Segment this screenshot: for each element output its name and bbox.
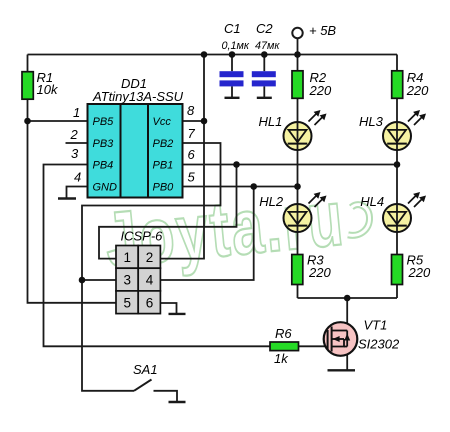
svg-text:SI2302: SI2302: [358, 337, 400, 352]
wire PB0 branch to ICSP pin4: [160, 187, 253, 281]
ground pin4 GND: [58, 197, 76, 199]
wire SA1 right lead to ground: [154, 391, 178, 402]
LED HL3: [359, 110, 426, 150]
gate bar: [327, 330, 329, 350]
svg-text:2: 2: [146, 250, 154, 265]
ground VT1 source: [328, 369, 356, 371]
connector ICSP-6: [116, 229, 163, 314]
resistor R6: [270, 342, 299, 351]
svg-text:+ 5В: + 5В: [309, 23, 336, 38]
node rail/C1 junction: [229, 51, 236, 58]
node SA1/ICSP pin3 junction: [79, 277, 86, 284]
source stub: [344, 346, 347, 348]
node rail/+5V junction: [294, 51, 301, 58]
svg-text:1: 1: [73, 105, 80, 120]
svg-text:PB0: PB0: [153, 182, 175, 194]
wire pin4 GND lead: [67, 187, 88, 199]
resistor R4: [392, 71, 403, 99]
svg-text:4: 4: [146, 273, 154, 288]
wire R1 branch (rail to pin1 to ICSP pin5): [28, 55, 117, 303]
svg-text:1k: 1k: [274, 351, 289, 366]
node HL1/HL2 junction: [294, 183, 301, 190]
svg-text:SA1: SA1: [133, 362, 158, 377]
svg-text:5: 5: [124, 295, 132, 310]
wire VT1 drain lead: [346, 298, 348, 331]
svg-text:220: 220: [406, 83, 429, 98]
ground ICSP pin6: [169, 313, 186, 315]
svg-text:HL1: HL1: [259, 114, 283, 129]
LED HL2: [259, 192, 326, 232]
wire pin6 PB1 to HL3/HL4 node: [183, 164, 398, 166]
capacitor C1: [220, 71, 244, 77]
wire C1 leads: [231, 55, 233, 72]
node PB0 branch junction: [250, 183, 257, 190]
svg-text:PB4: PB4: [93, 160, 114, 172]
svg-text:HL3: HL3: [359, 114, 384, 129]
svg-text:Vcc: Vcc: [153, 116, 172, 128]
wire R3/R5 bottom rail to drain node: [298, 297, 398, 299]
drain stub: [332, 330, 348, 332]
substrate arrow: [344, 334, 350, 341]
LED HL1: [259, 110, 327, 150]
channel bar: [331, 327, 333, 352]
svg-text:0,1мк: 0,1мк: [222, 40, 250, 52]
svg-text:C1: C1: [224, 21, 241, 36]
svg-text:4: 4: [74, 170, 81, 185]
svg-text:C2: C2: [256, 21, 273, 36]
wire PB1 branch to ICSP pin1: [99, 165, 237, 259]
svg-text:PB3: PB3: [93, 138, 115, 150]
switch SA1: [133, 362, 158, 391]
IC DD1 ATtiny13A-SSU: [88, 76, 184, 198]
resistor R3: [292, 255, 303, 285]
svg-text:3: 3: [124, 273, 132, 288]
svg-text:2: 2: [70, 127, 79, 142]
svg-text:8: 8: [187, 103, 195, 118]
svg-text:R6: R6: [275, 326, 292, 341]
terminal +5V: [292, 28, 302, 38]
ground C1: [225, 97, 240, 99]
body to source tie: [332, 339, 344, 347]
wire Vcc vertical to ICSP pin2: [160, 55, 204, 259]
svg-text:PB5: PB5: [93, 116, 115, 128]
resistor R1: [22, 72, 33, 100]
watermark Joyta.ru: [101, 171, 373, 284]
resistor R2: [292, 71, 303, 99]
svg-text:1: 1: [124, 250, 132, 265]
wire pin3 PB4 to R6 to gate VT1: [44, 165, 328, 347]
svg-text:3: 3: [71, 146, 79, 161]
ground C2: [257, 97, 272, 99]
capacitor C2: [252, 71, 276, 77]
node rail/C2 junction: [261, 51, 268, 58]
wire pin1 PB5: [28, 120, 88, 122]
node R1/pin1 junction: [24, 118, 31, 125]
svg-text:220: 220: [309, 83, 332, 98]
wire VT1 source lead: [346, 347, 348, 370]
svg-text:6: 6: [146, 295, 154, 310]
wire HL1/HL2 chain (R2, HL1, HL2, R3): [297, 55, 299, 299]
wire pin2 PB3 stub: [66, 142, 88, 144]
svg-text:5: 5: [188, 170, 196, 185]
wire ICSP pin6 ground lead: [160, 303, 176, 314]
node HL3/HL4 junction: [394, 161, 401, 168]
node drain junction: [344, 295, 351, 302]
svg-text:HL4: HL4: [360, 194, 384, 209]
svg-text:ATtiny13A-SSU: ATtiny13A-SSU: [92, 89, 184, 104]
node PB1 branch junction: [233, 161, 240, 168]
node pin8 Vcc junction: [201, 118, 208, 125]
svg-text:10k: 10k: [37, 82, 59, 97]
ground SA1: [169, 401, 186, 403]
wire pin8 Vcc stub: [183, 120, 205, 122]
svg-text:6: 6: [188, 147, 196, 162]
svg-text:7: 7: [188, 126, 196, 141]
LED HL4: [360, 192, 426, 232]
wire +5V top rail: [28, 54, 398, 56]
wire pin5 PB0 to HL1/HL2 node: [183, 186, 298, 188]
svg-text:PB1: PB1: [153, 160, 174, 172]
svg-text:PB2: PB2: [153, 138, 174, 150]
svg-text:220: 220: [308, 265, 331, 280]
wire ICSP pin3 branch: [82, 279, 116, 281]
node rail/Vcc junction: [201, 51, 208, 58]
wire +5V terminal stub: [297, 38, 299, 55]
transistor VT1 SI2302 MOSFET: [324, 318, 400, 356]
wire HL3/HL4 chain (R4, HL3, HL4, R5): [396, 55, 398, 299]
wire pin7 PB2 to SA1 and ICSP pin3 column: [82, 143, 221, 391]
svg-text:GND: GND: [93, 182, 118, 194]
body stub with arrow: [332, 338, 344, 340]
svg-text:VT1: VT1: [364, 318, 388, 333]
svg-text:220: 220: [408, 265, 431, 280]
resistor R5: [392, 255, 403, 285]
svg-text:47мк: 47мк: [255, 40, 280, 52]
wire C2 leads: [263, 55, 265, 72]
svg-text:ICSP-6: ICSP-6: [121, 229, 164, 244]
svg-text:HL2: HL2: [259, 194, 284, 209]
